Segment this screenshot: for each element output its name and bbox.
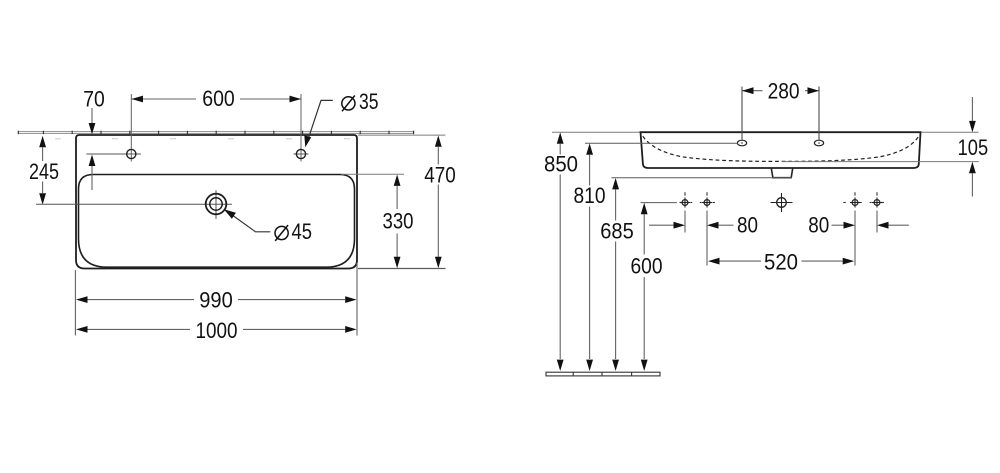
bowl bottom extension line (105) (782, 161, 979, 163)
dimension 80 left (649, 213, 758, 238)
svg-text:600: 600 (202, 86, 235, 111)
dimension 245 (drain offset from wall) (29, 136, 59, 205)
dimension 520 (fixing hole spacing) (708, 250, 854, 275)
svg-text:470: 470 (424, 163, 456, 188)
svg-text:810: 810 (574, 183, 606, 208)
dimension 280 (tap hole spacing) (742, 78, 819, 139)
fixing hole cross 3 (850, 192, 860, 207)
floor strip (546, 372, 660, 376)
svg-text:35: 35 (359, 89, 379, 114)
fixing hole cross 2 (702, 192, 712, 207)
leader and label Ø45 (drain) (224, 209, 312, 244)
dimension 600 (tap hole spacing) (132, 86, 302, 111)
svg-text:80: 80 (808, 213, 829, 238)
dimension 600 (fixing hole height) (631, 203, 663, 371)
svg-text:685: 685 (600, 218, 634, 243)
dimension 105 (bowl depth) (958, 97, 989, 197)
wall strip (tiled wall edge) (18, 131, 413, 139)
wall line right of basin (921, 131, 979, 133)
svg-text:850: 850 (544, 151, 578, 176)
basin outer outline (76, 135, 357, 269)
tap hole left (crosshair circle) (86, 94, 141, 162)
dimension 470 (overall depth) (424, 135, 456, 268)
basin inner outline (79, 175, 355, 268)
dimension 990 (inner width) (76, 288, 357, 313)
drain fitting level extension line (685) (612, 177, 793, 179)
svg-text:330: 330 (383, 209, 414, 234)
svg-text:70: 70 (83, 87, 105, 112)
dimension 330 (inner depth) (383, 175, 414, 269)
extension line inner rim right (341, 173, 404, 175)
dimension 850 (rim height) (544, 132, 578, 371)
extension line bottom right (basin front) (358, 268, 446, 270)
svg-text:280: 280 (768, 78, 800, 103)
dimension 1000 (overall width) (76, 318, 357, 343)
extension verticals bottom (74, 270, 76, 336)
fixing hole cross 4 (872, 192, 882, 207)
dimension 80 right (808, 213, 909, 238)
dimension 685 (drain height) (600, 178, 634, 371)
extension line top right (wall level) (358, 134, 445, 136)
fixing hole cross 1 (680, 192, 690, 207)
svg-text:245: 245 (29, 159, 59, 184)
leader and label Ø35 (tap hole) (304, 89, 378, 147)
wall line left of basin (552, 131, 640, 133)
drain fitting under basin (771, 168, 792, 177)
fixing hole level extension line (600) (641, 202, 678, 204)
dimension 810 (tap hole height) (574, 143, 606, 371)
tap hole right (crosshair circle) (294, 94, 309, 162)
svg-text:1000: 1000 (196, 318, 238, 343)
drain centre line (36, 203, 232, 205)
tap hole left (ellipse) (737, 140, 746, 146)
extension verticals from fixing holes (684, 211, 686, 233)
fixing holes centre dash-dot line left pair (680, 202, 716, 204)
fixing holes centre dash-dot line right pair (843, 202, 884, 204)
svg-text:990: 990 (199, 288, 233, 313)
svg-text:80: 80 (737, 213, 758, 238)
drain hole (double circle) (206, 190, 227, 219)
svg-text:45: 45 (292, 219, 313, 244)
tap hole level extension line (810) (585, 142, 738, 144)
basin body outline (641, 132, 921, 168)
svg-text:520: 520 (764, 250, 798, 275)
drain centre mark (771, 193, 793, 212)
svg-text:105: 105 (958, 135, 989, 160)
inner bowl dashed curve (643, 136, 919, 161)
svg-text:600: 600 (631, 254, 663, 279)
tap hole right (ellipse) (814, 140, 823, 146)
dimension 70 (hole offset from wall) (83, 87, 105, 191)
